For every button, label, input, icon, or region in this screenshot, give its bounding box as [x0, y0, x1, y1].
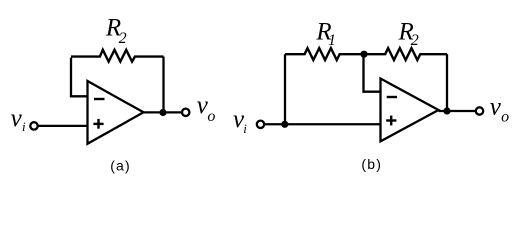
svg-text:i: i	[243, 121, 247, 136]
op-amp U2 plus pin symbol (b)	[386, 116, 396, 126]
op-amp U1 plus pin symbol (a)	[93, 119, 103, 129]
wire op-amp output (b)	[439, 110, 476, 112]
node output junction dot (b)	[443, 107, 450, 114]
op-amp U1 (a)	[88, 81, 144, 144]
label vi (b)	[233, 106, 247, 136]
wire vi to op-amp + input (b)	[264, 123, 381, 125]
label R1 (b)	[315, 19, 336, 50]
op-amp U2 (b)	[381, 79, 439, 142]
svg-text:o: o	[207, 108, 215, 125]
svg-text:v: v	[490, 94, 502, 121]
svg-text:i: i	[22, 119, 26, 134]
terminal vi (a) input port circle	[30, 122, 37, 129]
resistor R2 (b) with top rail wire	[364, 48, 448, 60]
resistor R1 (b) with top rail wire	[285, 48, 364, 60]
label vo (a)	[197, 92, 216, 125]
node output junction dot (a)	[159, 109, 166, 116]
label vi (a)	[11, 105, 26, 134]
resistor R2 (a) with feedback top rail wire	[71, 50, 164, 62]
node R1-R2 junction dot (b)	[360, 51, 367, 58]
label vo (b)	[490, 94, 509, 126]
svg-text:(b): (b)	[361, 156, 382, 172]
svg-text:1: 1	[328, 32, 336, 49]
terminal vo (a) output port circle	[182, 109, 189, 116]
svg-text:(a): (a)	[110, 157, 131, 173]
wire vi to op-amp + input (a)	[38, 125, 88, 127]
svg-text:v: v	[11, 105, 23, 132]
op-amp U2 minus pin symbol (b)	[387, 96, 397, 98]
node input junction dot (b)	[281, 121, 288, 128]
wire feedback right vertical (a)	[162, 57, 164, 113]
svg-text:2: 2	[119, 30, 127, 47]
svg-text:o: o	[501, 109, 509, 126]
wire minus input stub (a)	[71, 58, 88, 97]
svg-text:2: 2	[411, 32, 419, 49]
label R2 (b)	[398, 19, 419, 50]
terminal vo (b) output port circle	[476, 107, 483, 114]
wire R1-R2 junction to op-amp minus input (b)	[364, 54, 382, 91]
wire feedback right vertical (b)	[446, 54, 448, 111]
wire op-amp output (a)	[144, 111, 182, 113]
op-amp U1 minus pin symbol (a)	[94, 98, 105, 100]
wire input branch left vertical (b)	[284, 54, 286, 124]
terminal vi (b) input port circle	[257, 121, 264, 128]
label R2 (a)	[105, 15, 127, 47]
